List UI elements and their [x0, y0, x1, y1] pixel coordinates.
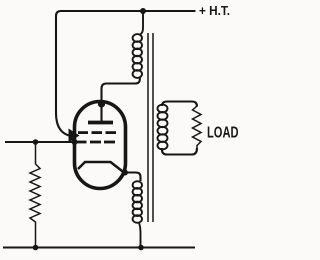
node: bottom rail / lower winding junction [138, 245, 144, 251]
wire: load loop top rail [162, 102, 197, 107]
svg-text:LOAD: LOAD [207, 125, 239, 142]
wire: load loop bottom rail [162, 148, 197, 155]
node: cathode lead crossing envelope right [122, 170, 128, 176]
node: anode lead crossing envelope top [98, 100, 105, 107]
inductor: primary upper winding (anode coil) [133, 13, 143, 78]
wire: anode lead from plate up and over to primary winding [102, 78, 140, 121]
tube V1: anode plate bar [88, 121, 113, 125]
transformer core (two lamination lines) [148, 33, 153, 222]
wire: cathode lead out to lower winding [124, 173, 141, 182]
svg-text:+ H.T.: + H.T. [199, 3, 230, 18]
inductor: primary lower winding (cathode coil) [133, 181, 142, 247]
wire: bottom rail [3, 246, 195, 248]
node: bottom rail / grid-leak junction [33, 245, 39, 251]
inductor: secondary winding (load coil) [158, 105, 168, 150]
wire: control-grid rail from left terminal to tube [5, 141, 75, 143]
tube V1: cathode [78, 162, 124, 173]
node: control-grid rail at envelope [72, 139, 78, 145]
node: junction of H.T. rail and primary winding [140, 8, 146, 14]
node: grid-leak resistor tap on grid rail [33, 139, 39, 145]
tube V1: control grid (lower dashed row) [77, 141, 115, 144]
wire: +H.T. top rail with left branch down to screen grid [56, 11, 196, 136]
tube V1: screen-grid arrow at envelope left [69, 129, 80, 143]
tube V1: glass envelope [75, 102, 126, 189]
resistor: grid leak (vertical zigzag) [30, 142, 40, 247]
resistor: LOAD (vertical zigzag) [193, 106, 202, 149]
tube V1: screen grid (upper dashed row) [78, 131, 116, 134]
